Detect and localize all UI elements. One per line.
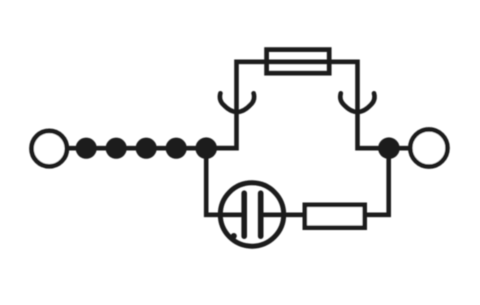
gas-filled indicator dot [231,233,237,239]
fuse F1 [267,50,330,74]
feed-through contact dots [76,138,97,159]
terminal circle right [410,129,447,166]
wire top branch with fuse loop [206,62,389,148]
wire bottom branch left down [206,148,242,215]
gas discharge arrester circle [220,183,283,246]
node junction right [378,137,400,159]
wire between arrester and resistor [263,213,305,218]
wire main horizontal left [66,146,237,151]
wire right to terminal [389,146,411,151]
resistor R1 [305,205,365,228]
arrester electrode left [241,193,247,236]
disconnect contact left [220,93,254,112]
arrester electrode right [258,193,264,236]
wire bottom branch right up [365,148,389,215]
node junction left [195,137,217,159]
terminal circle left [32,131,67,166]
disconnect contact right [340,93,374,112]
